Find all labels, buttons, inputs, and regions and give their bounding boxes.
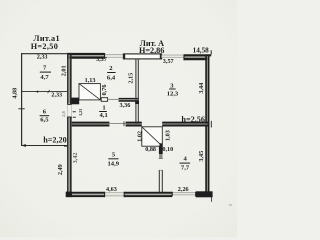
svg-text:7,7: 7,7 <box>181 164 190 171</box>
lower wall L2 lines <box>126 122 142 124</box>
corner tick right wall at lower wall <box>210 121 212 128</box>
room2/room3 divider line 2 <box>137 59 139 127</box>
svg-text:Н=2,86: Н=2,86 <box>139 46 164 55</box>
room5/room4 door gap faint jambs <box>159 159 163 171</box>
stove 4 corner blob <box>160 143 163 146</box>
svg-text:3,37: 3,37 <box>96 56 107 63</box>
svg-text:6,5: 6,5 <box>40 117 49 124</box>
veranda left wall <box>21 53 23 145</box>
svg-text:2,15: 2,15 <box>127 73 134 84</box>
top wall segment T1 core <box>67 55 104 57</box>
svg-text:0,10: 0,10 <box>162 146 173 153</box>
tick on left wall <box>18 108 24 110</box>
stove in room 4 <box>142 127 163 146</box>
svg-text:3,42: 3,42 <box>72 153 79 164</box>
svg-text:h=2,20: h=2,20 <box>43 135 67 144</box>
room2/room3 divider line 1 <box>135 59 137 127</box>
top wall window 1 <box>104 54 123 58</box>
svg-text:2,33: 2,33 <box>37 53 48 60</box>
svg-text:3,57: 3,57 <box>163 58 174 65</box>
bottom wall B1 lines <box>66 192 104 194</box>
middle wall window box <box>101 98 107 102</box>
door mark dashes <box>73 112 76 118</box>
top wall segment T2 core <box>184 56 207 58</box>
svg-text:Н=2,50: Н=2,50 <box>31 42 58 51</box>
arrow at bottom-left of 4,88 line <box>22 144 26 147</box>
paper background <box>0 0 237 237</box>
svg-text:4,1: 4,1 <box>100 112 108 119</box>
svg-text:6,4: 6,4 <box>107 75 116 82</box>
svg-text:1,13: 1,13 <box>85 77 96 84</box>
right wall line 1 <box>205 55 207 198</box>
svg-text:0,88: 0,88 <box>145 146 156 153</box>
veranda bottom wall <box>21 145 67 147</box>
bottom right corner foot <box>196 191 213 197</box>
svg-text:14,58: 14,58 <box>193 47 210 55</box>
top wall window 2 <box>162 55 185 59</box>
svg-text:1,03: 1,03 <box>164 130 171 141</box>
doorway cross tick <box>123 121 125 126</box>
svg-text:3,44: 3,44 <box>198 83 205 94</box>
top wall framed window <box>123 54 161 59</box>
svg-text:4,7: 4,7 <box>40 74 49 81</box>
svg-text:2,8: 2,8 <box>61 110 66 116</box>
right wall line 2 <box>208 55 210 198</box>
room7/room6 divider dim line <box>21 91 67 93</box>
svg-text:2,33: 2,33 <box>51 92 62 99</box>
svg-text:0,76: 0,76 <box>101 85 108 96</box>
svg-text:1: 1 <box>102 104 105 111</box>
middle wall segment B lines <box>119 98 139 100</box>
middle wall opening thin line <box>108 98 119 100</box>
right wall core <box>206 56 208 196</box>
bottom left corner foot <box>66 192 72 197</box>
room5/room4 divider upper solid <box>159 146 163 154</box>
svg-text:3,45: 3,45 <box>198 151 205 162</box>
svg-text:2,26: 2,26 <box>178 186 189 193</box>
top wall segment T1 upper line <box>67 53 104 55</box>
top wall segment T2 upper line <box>184 54 211 56</box>
left wall line 2 <box>70 53 72 197</box>
lower wall doorway thin line <box>109 122 125 124</box>
svg-text:h=2,56: h=2,56 <box>181 115 205 124</box>
left wall core <box>68 55 70 196</box>
bottom wall B2 lines <box>125 192 173 194</box>
svg-text:2,49: 2,49 <box>57 164 64 175</box>
svg-text:3,36: 3,36 <box>120 102 131 109</box>
left wall door jambs <box>67 104 72 117</box>
room5/room4 divider hollow lower <box>159 170 162 192</box>
tick room6 bottom at main wall <box>64 145 67 147</box>
bottom right tick <box>211 197 213 201</box>
svg-text:4,63: 4,63 <box>106 186 117 193</box>
top wall segment T2 lower line <box>184 58 209 60</box>
veranda top wall <box>21 53 69 55</box>
wall junction blob at door/stove <box>72 98 80 105</box>
bottom wall window 2 <box>172 192 196 195</box>
svg-text:14,9: 14,9 <box>108 160 120 167</box>
svg-text:2,01: 2,01 <box>60 65 67 76</box>
svg-text:12,3: 12,3 <box>167 91 179 98</box>
lower wall L3 lines <box>162 122 209 124</box>
faint scan mark <box>229 204 232 206</box>
svg-text:1,02: 1,02 <box>136 131 143 142</box>
wall end caps at window boundaries <box>105 192 196 198</box>
left wall line 1 <box>67 53 69 197</box>
divider slash tick <box>48 90 50 93</box>
top wall segment T1 lower line <box>67 56 104 58</box>
bottom wall window 1 <box>104 192 124 196</box>
top right corner tick <box>210 50 212 54</box>
room5/room4 divider faded piece <box>159 154 162 159</box>
divider tick dot <box>37 91 39 93</box>
svg-text:1,21: 1,21 <box>78 109 83 116</box>
svg-text:4,88: 4,88 <box>12 88 19 99</box>
lower wall L1 lines <box>72 122 110 124</box>
stove in room 2 <box>79 84 100 100</box>
divider junction blob at middle wall <box>135 101 139 104</box>
